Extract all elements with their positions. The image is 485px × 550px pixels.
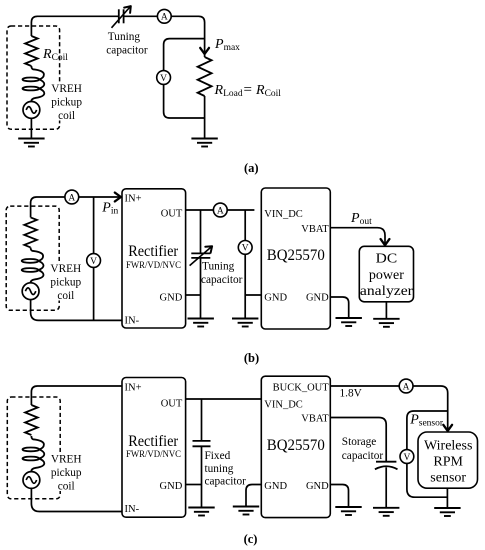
ammeter A output (b): [213, 203, 227, 217]
svg-text:capacitor: capacitor: [342, 450, 384, 462]
label: Tuning capacitor (a): [106, 31, 148, 57]
wireless RPM sensor box (c): [418, 432, 478, 488]
svg-text:OUT: OUT: [161, 398, 183, 409]
label: VREH pickup coil (c): [49, 452, 84, 492]
svg-text:=: =: [244, 82, 252, 98]
dashed box: VREH pickup coil model (a): [7, 26, 60, 129]
svg-text:FWR/VD/NVC: FWR/VD/NVC: [126, 449, 181, 460]
voltmeter V (a): [157, 71, 171, 85]
svg-text:pickup: pickup: [50, 276, 81, 288]
resistor R_Coil (c): [25, 405, 38, 435]
label: Fixed tuning capacitor: [205, 450, 247, 488]
svg-text:Rectifier: Rectifier: [128, 243, 179, 260]
wire: OUT to tuning cap (b): [200, 210, 202, 253]
wire: coil to ammeter (b): [31, 197, 65, 217]
label: VREH pickup coil (a): [49, 82, 84, 122]
wire: rectifier GND to ground (b): [186, 294, 201, 296]
ground (BQ left ground (c)): [233, 507, 259, 515]
wire: voltmeter to sensor input (c): [407, 411, 448, 450]
DC power analyzer box (b): [359, 246, 413, 301]
wire: BQ GND left to ground (c): [246, 485, 261, 507]
svg-text:A: A: [68, 193, 75, 203]
svg-text:V: V: [90, 257, 97, 267]
ground (BQ right ground (c)): [335, 507, 361, 515]
voltmeter V sensor (c): [400, 450, 414, 464]
wire: BQ GND right to ground (b): [330, 297, 348, 318]
ammeter A (a): [157, 9, 171, 23]
AC source V_S (b): [22, 283, 39, 300]
svg-text:coil: coil: [58, 480, 75, 492]
svg-text:GND: GND: [160, 481, 183, 492]
svg-text:VBAT: VBAT: [301, 224, 329, 235]
dashed box: VREH pickup coil model (b): [6, 206, 59, 310]
svg-text:Wireless: Wireless: [424, 438, 472, 453]
svg-text:GND: GND: [160, 292, 183, 303]
wire: OUT to voltmeter (b): [244, 210, 246, 241]
variable tuning capacitor (b): [191, 253, 210, 258]
svg-text:BQ25570: BQ25570: [267, 437, 325, 454]
ground (sensor ground (c)): [434, 508, 460, 516]
svg-text:OUT: OUT: [161, 209, 183, 220]
ground (BQ output ground (b)): [336, 318, 362, 326]
svg-text:coil: coil: [58, 110, 75, 122]
arrow of variable capacitor (a): [124, 6, 131, 13]
svg-text:RLoad: RLoad: [214, 83, 243, 99]
svg-text:Pin: Pin: [101, 200, 118, 216]
wire: tuning cap to ground (b): [200, 258, 202, 319]
svg-text:RCoil: RCoil: [255, 83, 281, 99]
svg-text:Pmax: Pmax: [214, 37, 240, 53]
wire: voltmeter top branch (a): [164, 39, 205, 71]
ground (load ground (a)): [191, 139, 217, 147]
svg-text:VIN_DC: VIN_DC: [264, 399, 303, 410]
svg-text:capacitor: capacitor: [201, 274, 243, 286]
wire: rectifier GND to cap branch (c): [186, 484, 202, 486]
svg-text:sensor: sensor: [430, 470, 466, 485]
svg-text:Tuning: Tuning: [202, 260, 235, 272]
wire: voltmeter bottom branch (a): [164, 84, 205, 118]
svg-text:power: power: [369, 268, 404, 283]
ground (BQ input ground (b)): [232, 319, 258, 327]
svg-text:A: A: [217, 206, 224, 216]
svg-text:GND: GND: [306, 292, 329, 303]
wire: voltmeter to ground (b): [244, 254, 246, 318]
wire: coil to IN+ (c): [31, 386, 122, 405]
svg-text:Pout: Pout: [350, 211, 372, 227]
svg-text:pickup: pickup: [51, 96, 82, 108]
ground (analyzer ground (b)): [373, 319, 399, 327]
svg-text:Rectifier: Rectifier: [128, 433, 179, 450]
svg-text:capacitor: capacitor: [205, 476, 247, 488]
wire: BQ GND right to ground (c): [330, 485, 348, 508]
inductor pickup coil L (c): [23, 436, 45, 472]
inductor pickup coil L (b): [22, 248, 44, 284]
arrow P_out into analyzer (b): [381, 239, 390, 245]
svg-text:Storage: Storage: [342, 436, 377, 448]
ground (rectifier ground (c)): [188, 508, 214, 516]
svg-text:V: V: [242, 244, 249, 254]
svg-text:BUCK_OUT: BUCK_OUT: [273, 382, 330, 393]
ammeter A input (b): [65, 190, 79, 204]
svg-text:IN+: IN+: [125, 194, 142, 205]
variable tuning capacitor C_tune (a): [119, 9, 124, 23]
fixed tuning capacitor (c): [193, 441, 211, 446]
wire: VBAT to DC power analyzer (b): [330, 228, 385, 245]
svg-text:IN-: IN-: [125, 316, 140, 327]
wire: OUT to VIN_DC (c): [186, 398, 262, 400]
inductor pickup coil L (a): [23, 66, 45, 102]
wire: voltmeter branch top (b): [93, 197, 95, 254]
svg-text:capacitor: capacitor: [106, 45, 148, 57]
svg-text:VREH: VREH: [50, 263, 81, 275]
rectifier U1 (b): [122, 189, 186, 328]
wire: fixed cap to ground (c): [201, 446, 203, 507]
svg-text:BQ25570: BQ25570: [267, 247, 325, 264]
arrow P_max into load (a): [200, 48, 209, 54]
svg-text:V: V: [160, 74, 167, 84]
svg-text:GND: GND: [264, 292, 287, 303]
svg-text:FWR/VD/NVC: FWR/VD/NVC: [126, 260, 181, 271]
rectifier U1 (c): [122, 378, 186, 518]
svg-text:A: A: [403, 382, 410, 392]
svg-text:pickup: pickup: [51, 467, 82, 479]
label: Wireless RPM sensor: [424, 438, 472, 485]
arrow of variable capacitor (b): [205, 246, 212, 253]
ground (rectifier/tuning-cap ground (b)): [188, 319, 214, 327]
svg-text:GND: GND: [306, 481, 329, 492]
svg-text:IN+: IN+: [125, 383, 142, 394]
voltmeter V output (b): [238, 241, 252, 255]
wire: ground rail to BQ GND (b): [245, 294, 261, 296]
svg-text:coil: coil: [57, 290, 74, 302]
BQ25570 U2 (c): [261, 376, 330, 517]
svg-text:tuning: tuning: [205, 463, 234, 475]
wire: ammeter to IN+ (b): [79, 196, 121, 198]
svg-text:(b): (b): [244, 351, 259, 365]
arrow P_sensor into sensor (c): [443, 425, 452, 431]
wire: ammeter to sensor (c): [413, 386, 448, 430]
svg-text:Psensor: Psensor: [409, 412, 444, 428]
svg-text:VBAT: VBAT: [301, 413, 329, 424]
svg-text:DC: DC: [376, 252, 398, 267]
wire: source to IN- (c): [31, 488, 122, 511]
voltmeter V input (b): [87, 254, 101, 268]
wire: OUT to VIN_DC (b): [186, 209, 255, 211]
svg-text:IN-: IN-: [125, 504, 140, 515]
svg-text:Tuning: Tuning: [108, 31, 141, 43]
svg-text:(a): (a): [244, 161, 259, 175]
label: Storage capacitor: [342, 436, 384, 462]
svg-text:GND: GND: [264, 481, 287, 492]
resistor R_Coil (a): [25, 36, 38, 66]
svg-text:VREH: VREH: [51, 83, 82, 95]
svg-text:RPM: RPM: [433, 455, 463, 470]
label: Tuning capacitor (b): [201, 260, 243, 285]
resistor R_Coil (b): [24, 217, 37, 247]
svg-text:analyzer: analyzer: [360, 284, 413, 299]
wire: analyzer to ground (b): [385, 302, 387, 319]
svg-text:1.8V: 1.8V: [340, 387, 363, 399]
ammeter A sensor (c): [399, 379, 413, 393]
wire: coil top to tuning capacitor (a): [31, 16, 118, 36]
arrow P_in into IN+ (b): [115, 193, 121, 202]
BQ25570 U2 (b): [261, 188, 330, 329]
wire: source to ground (a): [30, 118, 32, 138]
svg-text:Fixed: Fixed: [205, 450, 231, 462]
wire: VBAT to storage capacitor (c): [330, 418, 386, 462]
wire: storage capacitor to ground (c): [385, 467, 387, 508]
svg-text:V: V: [403, 453, 410, 463]
ground (storage capacitor ground (c)): [373, 508, 399, 516]
AC source V_S (a): [23, 102, 40, 119]
wire: ammeter to load branch (a): [171, 16, 204, 57]
AC source V_S (c): [23, 472, 40, 489]
dashed box: VREH pickup coil model (c): [7, 397, 60, 499]
svg-text:(c): (c): [244, 532, 258, 546]
ground (source ground (a)): [18, 139, 44, 147]
storage capacitor C_store (c): [375, 462, 398, 470]
svg-text:VIN_DC: VIN_DC: [264, 209, 303, 220]
label: VREH pickup coil (b): [48, 262, 83, 302]
svg-text:A: A: [161, 13, 168, 23]
wire: load to ground (a): [204, 96, 206, 139]
label: DC power analyzer: [360, 252, 413, 300]
wire: tuning capacitor to ammeter (a): [124, 15, 157, 17]
svg-text:VREH: VREH: [51, 454, 82, 466]
resistor R_Load (a): [198, 57, 212, 96]
wire: sensor to ground (c): [446, 488, 448, 508]
wire: OUT to fixed cap (c): [201, 399, 203, 441]
wire: source to IN- (b): [31, 300, 122, 321]
wire: voltmeter to sensor ground (c): [407, 463, 448, 497]
svg-text:RCoil: RCoil: [42, 47, 68, 63]
wire: voltmeter branch bottom (b): [93, 267, 95, 320]
wire: BUCK_OUT to ammeter (c): [330, 385, 399, 387]
